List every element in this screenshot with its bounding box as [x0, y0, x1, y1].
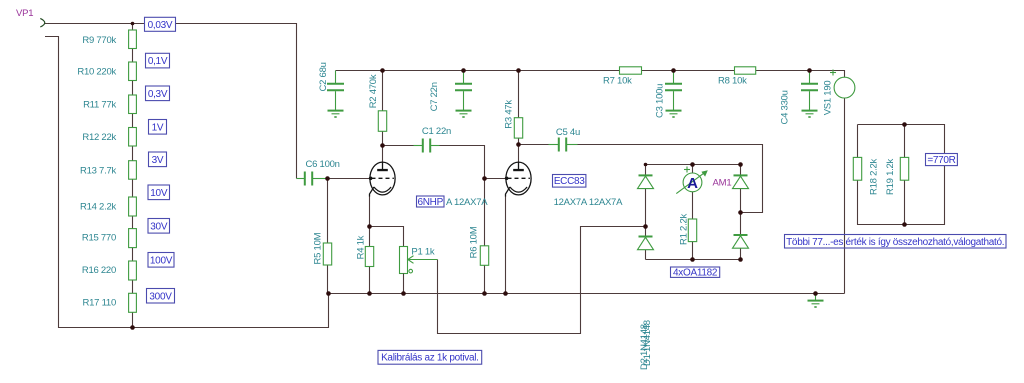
wire meter bottom through R1 [692, 192, 694, 260]
ground for C7 [456, 111, 472, 118]
resistor R2 [378, 111, 386, 132]
diode bridge bottom-right [733, 235, 749, 248]
label box Kalibralas [378, 350, 482, 364]
svg-text:R6 10M: R6 10M [469, 226, 480, 258]
svg-text:R11 77k: R11 77k [83, 100, 116, 111]
resistor R19 [900, 157, 908, 180]
connector VP1 terminal [40, 18, 44, 27]
wire top rail left segment [336, 70, 620, 72]
resistor R12 [129, 128, 137, 147]
svg-text:R5 10M: R5 10M [313, 232, 324, 264]
label box 6NHP [417, 196, 445, 208]
svg-text:C2 68u: C2 68u [318, 62, 329, 91]
wire bottom rail [329, 293, 845, 295]
wire top rail right segment to VS1 [756, 71, 845, 78]
resistor R18 [853, 157, 861, 180]
wire R3 bottom to C5 [519, 144, 549, 146]
svg-text:R9 770k: R9 770k [82, 35, 116, 46]
resistor R14 [129, 197, 137, 216]
node box 0,3V [146, 86, 170, 101]
svg-text:ECC83: ECC83 [554, 176, 585, 187]
wire R2 bottom to C1 [383, 145, 414, 147]
wire divider chain vertical [132, 24, 134, 328]
wire anode 1 [382, 71, 384, 163]
resistor R7 [620, 67, 642, 74]
wire grid 2 line [485, 178, 507, 180]
resistor R11 [129, 95, 137, 114]
resistor R4 [365, 247, 373, 267]
svg-text:C7 22n: C7 22n [429, 82, 440, 111]
svg-text:R17 110: R17 110 [83, 297, 116, 308]
triode tube U1 6NHP/12AX7A [369, 162, 395, 196]
wire meter top lead [692, 165, 694, 174]
svg-text:A: A [687, 175, 698, 192]
wire top rail middle segment [642, 70, 735, 72]
svg-text:Kalibrálás az 1k potival.: Kalibrálás az 1k potival. [381, 353, 479, 364]
node box 1V [149, 120, 167, 135]
capacitor C6 [297, 172, 328, 186]
wire cathode 2 down [505, 196, 507, 294]
svg-text:100V: 100V [150, 255, 173, 266]
svg-text:AM1: AM1 [713, 178, 732, 189]
capacitor C1 [414, 139, 440, 153]
svg-text:R1 2.2k: R1 2.2k [679, 214, 690, 245]
label box ECC83 [553, 175, 586, 188]
svg-text:A 12AX7A: A 12AX7A [446, 197, 488, 208]
resistor R5 [323, 243, 331, 265]
svg-text:R8 10k: R8 10k [718, 75, 747, 86]
capacitor C3 [665, 71, 682, 111]
wire bridge left [645, 165, 647, 260]
resistor R16 [129, 261, 137, 280]
wire C1 output to grid 2 node [440, 146, 485, 179]
svg-text:C3 100u: C3 100u [655, 84, 666, 118]
svg-text:VP1: VP1 [16, 8, 33, 19]
svg-text:C6 100n: C6 100n [306, 159, 340, 170]
resistor R3 [514, 118, 522, 138]
svg-text:R10 220k: R10 220k [77, 67, 116, 78]
svg-text:R19 1.2k: R19 1.2k [885, 158, 896, 195]
voltage source VS1 [830, 70, 855, 99]
wire VS1 bottom down right side [844, 98, 846, 294]
wire bridge top [646, 164, 741, 166]
resistor R8 [735, 67, 756, 74]
meter AM1 [676, 167, 708, 194]
svg-text:4xOA1182: 4xOA1182 [673, 268, 718, 279]
resistor R10 [129, 62, 137, 81]
wire grid 1 line [328, 178, 371, 180]
svg-text:C5 4u: C5 4u [556, 127, 580, 138]
wire R6 lead [484, 179, 486, 294]
wire VP1 second pin down left side along bottom [45, 37, 329, 328]
ground bottom rail [808, 294, 824, 308]
diode bridge top-left [638, 175, 654, 188]
svg-text:R12 22k: R12 22k [82, 132, 116, 143]
wire cathode 1 down [369, 196, 371, 294]
node box 300V [147, 289, 175, 304]
node box 100V [148, 253, 174, 268]
svg-text:0,03V: 0,03V [148, 20, 173, 31]
svg-text:C1 22n: C1 22n [422, 126, 451, 137]
svg-text:R3 47k: R3 47k [504, 100, 515, 129]
svg-text:12AX7A 12AX7A: 12AX7A 12AX7A [554, 197, 623, 208]
label box Tobbi megjegyzes [785, 235, 1007, 249]
wire C5 output to bridge right vertex [578, 145, 763, 213]
svg-text:R13 7.7k: R13 7.7k [80, 166, 117, 177]
svg-text:R14 2.2k: R14 2.2k [80, 201, 117, 212]
triode tube U2 ECC83 [505, 162, 531, 196]
node box 0,1V [146, 53, 170, 68]
resistor R17 [129, 293, 137, 312]
svg-text:C4 330u: C4 330u [780, 90, 791, 124]
node box 10V [148, 185, 170, 200]
resistor R1 [688, 219, 696, 242]
wire bridge right [740, 165, 742, 260]
resistor R9 [129, 30, 137, 49]
ground for C2 [328, 111, 344, 118]
wire anode 2 [518, 71, 520, 163]
wire R18 R19 demo loop [858, 125, 945, 225]
capacitor C2 [327, 71, 344, 111]
node box 3V [149, 152, 167, 167]
wire P1 wiper to bridge left vertex [438, 227, 646, 334]
svg-text:1V: 1V [152, 122, 164, 133]
svg-text:=770R: =770R [927, 155, 955, 166]
svg-text:D1 1N4148: D1 1N4148 [642, 320, 653, 366]
node box 0,03V [145, 17, 176, 31]
capacitor C5 [549, 138, 578, 152]
svg-text:R4 1k: R4 1k [356, 235, 367, 259]
wire cathode 1 to P1 top [370, 227, 404, 247]
svg-text:R15 770: R15 770 [82, 233, 116, 244]
label box 4xOA1182 [671, 267, 720, 279]
svg-text:Többi 77...-es érték is így ös: Többi 77...-es érték is így összehozható… [786, 237, 1004, 248]
ground for C4 [802, 111, 818, 118]
wire VP1 to C6 input [45, 24, 297, 179]
resistor R15 [129, 229, 137, 248]
ground for C3 [666, 111, 682, 118]
wire R5 lead [327, 179, 329, 294]
svg-text:R18 2.2k: R18 2.2k [869, 158, 880, 195]
diode bridge top-right [733, 175, 749, 188]
node box 30V [148, 219, 170, 234]
resistor R13 [129, 161, 137, 180]
diode bridge bottom-left [638, 237, 654, 250]
svg-text:VS1 190: VS1 190 [823, 81, 834, 116]
svg-text:10V: 10V [150, 188, 168, 199]
svg-text:300V: 300V [149, 291, 172, 302]
potentiometer P1 [400, 247, 438, 294]
label box 770R [926, 154, 958, 166]
svg-text:R16 220: R16 220 [82, 265, 116, 276]
wire bridge bottom [646, 259, 741, 261]
capacitor C7 [455, 71, 472, 111]
svg-text:0,1V: 0,1V [148, 56, 168, 67]
resistor R6 [480, 246, 488, 265]
svg-text:0,3V: 0,3V [148, 89, 168, 100]
svg-text:6NHP: 6NHP [418, 197, 444, 208]
svg-text:P1 1k: P1 1k [411, 247, 435, 258]
svg-text:30V: 30V [150, 221, 168, 232]
svg-text:3V: 3V [152, 155, 164, 166]
capacitor C4 [801, 71, 818, 111]
svg-text:R7 10k: R7 10k [603, 75, 632, 86]
svg-text:R2 470k: R2 470k [368, 74, 379, 108]
